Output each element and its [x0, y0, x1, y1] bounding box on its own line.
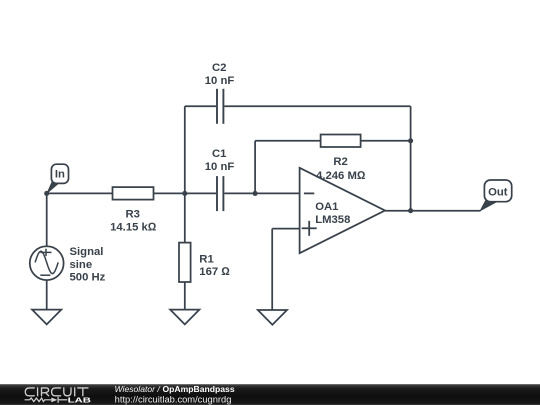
- junction R2/right rail: [408, 138, 413, 143]
- wire: source V1 to ground: [46, 280, 48, 310]
- wire: inverting node up to R2 rail: [254, 141, 256, 194]
- svg-text:14.15 kΩ: 14.15 kΩ: [110, 222, 157, 234]
- svg-text:Signal: Signal: [70, 246, 104, 258]
- svg-text:R3: R3: [125, 209, 139, 221]
- capacitor C1: [217, 176, 223, 211]
- svg-text:Out: Out: [488, 187, 508, 199]
- wire: node In to R3 left: [47, 192, 113, 194]
- svg-text:R2: R2: [333, 156, 347, 168]
- junction node In: [44, 191, 49, 196]
- capacitor C2: [217, 89, 223, 124]
- label source Signal sine 500 Hz: [70, 246, 106, 284]
- svg-text:4.246 MΩ: 4.246 MΩ: [316, 170, 366, 182]
- svg-text:C2: C2: [212, 62, 226, 74]
- svg-text:sine: sine: [70, 259, 93, 271]
- svg-text:OA1: OA1: [315, 201, 338, 213]
- svg-text:10 nF: 10 nF: [205, 75, 235, 87]
- svg-text:OpAmpBandpass: OpAmpBandpass: [163, 384, 235, 394]
- label R3 value: [110, 209, 157, 234]
- wire: top rail to C2 left plate: [185, 105, 216, 107]
- wire: node In down to source V1: [46, 193, 48, 246]
- label OA1 LM358: [315, 201, 350, 226]
- resistor R1: [179, 243, 191, 282]
- svg-text:500 Hz: 500 Hz: [70, 272, 106, 284]
- wire: C2 right plate to right rail: [224, 105, 410, 107]
- wire: non-inverting input down to ground: [271, 229, 273, 310]
- svg-text:C1: C1: [212, 148, 226, 160]
- voltage source V1 (Signal sine 500 Hz): [30, 246, 64, 280]
- wire: R2 rail left segment: [255, 140, 321, 142]
- label C2 value: [205, 62, 235, 87]
- footer logo CIRCUIT: [25, 388, 88, 396]
- wire: junction A to C1 left plate: [185, 192, 216, 194]
- svg-text:In: In: [55, 169, 65, 181]
- wire: op-amp output to Out flag: [385, 210, 481, 212]
- flag Out: [479, 180, 511, 212]
- junction A (R3/C1/R1/C2): [182, 191, 187, 196]
- wire: R1 to ground: [184, 282, 186, 310]
- wire: R2 right to output rail: [361, 140, 411, 142]
- junction output node: [408, 208, 413, 213]
- wire: op-amp non-inverting input left: [272, 228, 299, 230]
- ground (op-amp +): [258, 310, 287, 325]
- resistor R2: [321, 135, 361, 148]
- wire: right rail down to output node: [410, 106, 412, 210]
- svg-text:LAB: LAB: [68, 396, 92, 405]
- wire: junction A up to C2 top rail: [184, 106, 186, 193]
- svg-text:http://circuitlab.com/cugnrdg: http://circuitlab.com/cugnrdg: [115, 394, 232, 404]
- svg-text:167 Ω: 167 Ω: [199, 266, 230, 278]
- svg-text:Wiesolator /: Wiesolator /: [115, 384, 162, 394]
- svg-text:10 nF: 10 nF: [205, 161, 235, 173]
- footer logo doodle: [25, 397, 68, 403]
- junction inverting node: [253, 191, 258, 196]
- ground (source): [32, 310, 61, 325]
- svg-text:LM358: LM358: [315, 214, 350, 226]
- footer bar: [0, 384, 540, 405]
- resistor R3: [113, 187, 154, 200]
- label R2 value: [316, 156, 366, 182]
- wire: R3 right to junction A: [154, 192, 185, 194]
- wire: C1 right plate to op-amp inverting input: [224, 192, 299, 194]
- svg-text:R1: R1: [199, 254, 213, 266]
- ground (R1): [170, 310, 199, 325]
- label C1 value: [205, 148, 235, 173]
- op-amp OA1: [300, 168, 385, 253]
- label R1 value: [199, 254, 230, 278]
- flag In: [46, 164, 69, 195]
- wire: junction A down to R1: [184, 193, 186, 242]
